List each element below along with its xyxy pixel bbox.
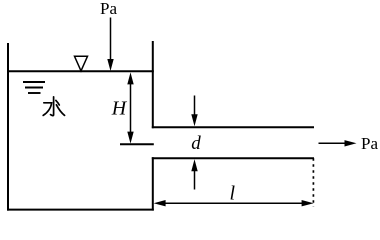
l dimension arrow (double headed) [164,202,303,204]
svg-text:l: l [230,183,236,205]
d dimension up arrow [194,171,196,190]
datum line under H arrow [120,143,154,145]
label 水 (water) [43,97,64,116]
tank right wall lower segment [152,157,154,210]
free-surface triangle marker [75,56,88,71]
Pa arrow (right outlet) [319,142,347,144]
dotted extension line [312,158,314,206]
d dimension down arrow [194,96,196,116]
tank bottom [7,209,154,211]
tank right wall upper segment [152,41,154,128]
svg-text:H: H [111,98,128,120]
tank left wall [7,43,9,211]
pipe top wall [152,126,314,128]
surface hatch lines [23,82,45,93]
Pa arrow (down to water surface) [110,18,112,61]
svg-text:Pa: Pa [100,0,117,18]
H dimension arrow (double headed) [130,82,132,134]
svg-text:Pa: Pa [361,134,378,153]
svg-text:d: d [191,133,201,154]
pipe bottom wall [152,157,314,159]
water surface line [7,70,154,72]
